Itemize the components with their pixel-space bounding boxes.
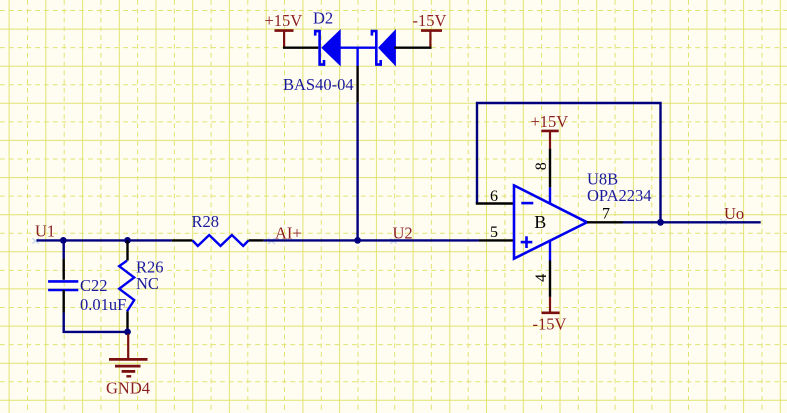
wire U1 junction down to C22	[63, 240, 65, 258]
wire U1 net segment	[37, 239, 172, 241]
pin U8B.8 (V+)	[549, 149, 551, 204]
pin U8B.5 wire	[479, 239, 514, 241]
wire D2 second anode to -15V	[394, 47, 431, 49]
junction at U8B output	[657, 219, 664, 226]
svg-text:BAS40-04: BAS40-04	[283, 75, 354, 94]
wire +15V to D2 first cathode	[283, 47, 318, 49]
U8B non-inverting input marker	[521, 236, 533, 248]
pin R26.2	[126, 311, 128, 329]
power -15V (U8B supply)	[533, 297, 567, 334]
svg-text:U2: U2	[393, 223, 413, 242]
svg-text:OPA2234: OPA2234	[587, 186, 652, 205]
pin R28.2	[249, 239, 264, 241]
wire clamp tap vertical to node U2	[356, 47, 358, 241]
svg-text:6: 6	[490, 188, 498, 205]
resistor R28	[192, 235, 248, 246]
power -15V (diode clamp)	[413, 11, 447, 47]
svg-text:U1: U1	[35, 221, 55, 240]
junction at ground node	[124, 329, 131, 336]
svg-text:+15V: +15V	[265, 11, 303, 30]
U8B inverting input marker	[521, 202, 533, 205]
diode D2 second half (BAS40-04, cathode left)	[371, 30, 396, 66]
svg-text:B: B	[534, 212, 546, 232]
svg-text:-15V: -15V	[533, 315, 567, 334]
pin R26.1	[126, 240, 128, 260]
svg-text:7: 7	[602, 206, 610, 223]
svg-text:8: 8	[533, 162, 550, 170]
svg-text:NC: NC	[136, 274, 159, 293]
feedback wire U8B output to pin 6	[477, 103, 661, 222]
net label anchor marker AI+	[268, 238, 275, 244]
power +15V (U8B supply)	[531, 112, 569, 148]
junction U1 / R26 branch	[124, 237, 131, 244]
wire C22 to ground junction	[64, 313, 128, 332]
op-amp U8B triangle	[514, 185, 587, 258]
svg-text:+15V: +15V	[531, 112, 569, 131]
svg-text:C22: C22	[80, 276, 108, 295]
junction at node U2	[354, 237, 361, 244]
pin U8B.4 (V-)	[549, 240, 551, 297]
net label anchor marker Uo	[720, 219, 726, 224]
svg-text:R28: R28	[192, 212, 220, 231]
net label anchor marker U1	[32, 238, 38, 243]
pin C22.2	[63, 290, 65, 313]
wire output to Uo	[623, 221, 761, 223]
diode D2 first half (BAS40-04, cathode left)	[314, 30, 340, 66]
svg-text:-15V: -15V	[413, 11, 447, 30]
capacitor C22	[48, 281, 78, 290]
svg-text:5: 5	[490, 224, 498, 241]
svg-text:GND4: GND4	[106, 378, 150, 397]
svg-text:Uo: Uo	[724, 204, 744, 223]
wire D2 anode to second cathode (clamp tap node)	[339, 47, 376, 49]
svg-text:4: 4	[533, 274, 550, 282]
ground GND4 symbol	[109, 334, 148, 376]
junction U1 / C22 branch	[60, 237, 67, 244]
net label anchor marker U2	[390, 238, 396, 243]
resistor R26	[119, 261, 134, 312]
pin R28.1	[172, 239, 193, 241]
pin U8B.7 wire	[587, 221, 623, 223]
svg-text:D2: D2	[313, 9, 333, 28]
pin C22.1	[63, 259, 65, 280]
pin U8B.6 wire	[476, 202, 514, 204]
power +15V (diode clamp)	[265, 11, 303, 47]
svg-text:0.01uF: 0.01uF	[80, 295, 126, 314]
wire AI+ / U2 segment	[264, 239, 479, 241]
